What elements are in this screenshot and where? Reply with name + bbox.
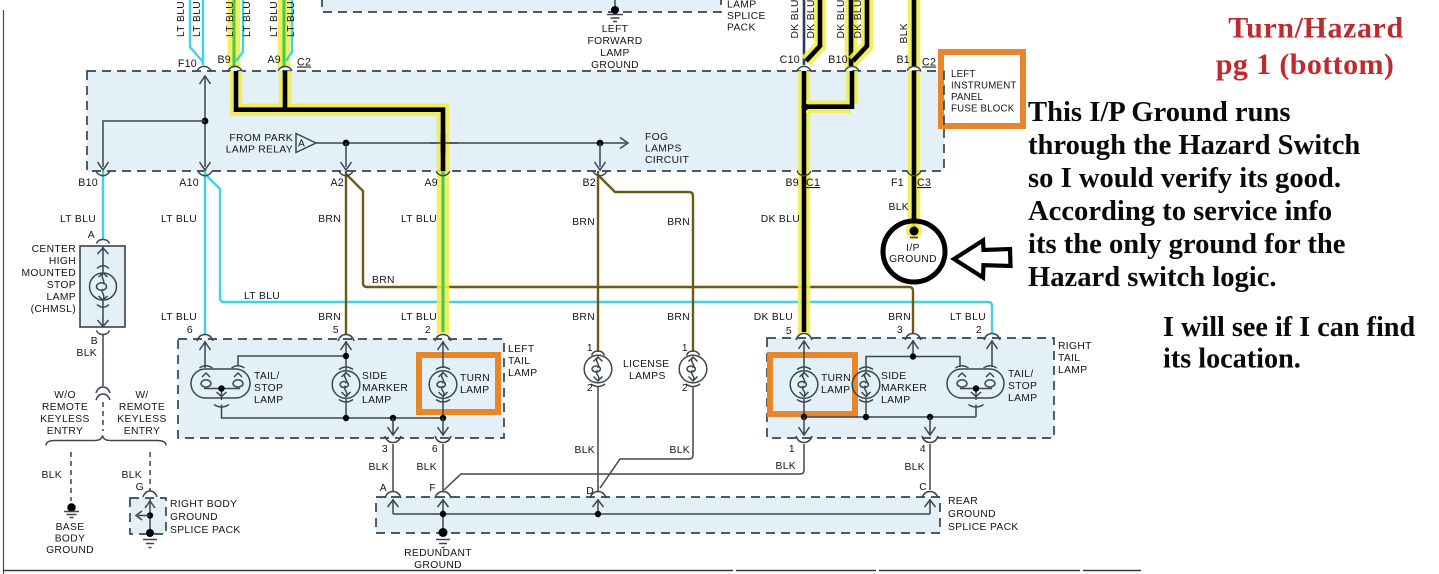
svg-text:LT BLU: LT BLU <box>401 214 437 225</box>
svg-text:BLK: BLK <box>574 445 595 456</box>
svg-text:PACK: PACK <box>727 23 756 34</box>
ground right body splice <box>143 529 157 548</box>
svg-text:TURN: TURN <box>460 373 490 384</box>
svg-text:This I/P Ground runs: This I/P Ground runs <box>1028 97 1291 128</box>
connector C10 <box>797 66 811 70</box>
svg-text:BLK: BLK <box>904 462 925 473</box>
wire LT BLU branch A10 to right tail pin 2 <box>205 174 992 334</box>
socket arc below CHMSL bulb <box>97 305 109 308</box>
svg-text:TAIL: TAIL <box>508 356 530 367</box>
connector A2 bottom exit <box>339 171 353 175</box>
svg-text:2: 2 <box>682 383 688 394</box>
svg-text:CENTER: CENTER <box>32 244 76 255</box>
svg-text:F10: F10 <box>178 58 197 70</box>
label I/P GROUND <box>889 243 937 265</box>
wire LT BLU pair into A9 <box>286 0 292 61</box>
inline connector pair <box>96 387 110 400</box>
label RIGHT TAIL LAMP <box>1058 341 1092 376</box>
label LAMP SPLICE PACK <box>727 0 766 34</box>
svg-text:5: 5 <box>333 325 339 336</box>
svg-text:1: 1 <box>682 343 688 354</box>
wire BLK left tail pin 6 to splice F <box>442 444 444 492</box>
label TURN LAMP left <box>460 373 490 396</box>
svg-text:FORWARD: FORWARD <box>587 36 642 47</box>
svg-text:LAMP: LAMP <box>508 368 537 379</box>
svg-text:A: A <box>380 483 387 494</box>
entry arrow pin 2 <box>438 341 449 368</box>
svg-text:REAR: REAR <box>948 496 978 507</box>
svg-text:BRN: BRN <box>372 275 395 286</box>
svg-text:C10: C10 <box>780 54 800 66</box>
exit arrow pin 1 <box>799 417 810 435</box>
connector 2 arc <box>435 335 451 342</box>
node bus side marker right <box>863 414 869 420</box>
label CENTER HIGH MOUNTED STOP LAMP (CHMSL) <box>21 244 76 315</box>
svg-text:A9: A9 <box>424 177 438 189</box>
svg-text:BRN: BRN <box>318 312 341 323</box>
connector 6 arc <box>197 335 213 342</box>
node bus side marker <box>343 415 349 421</box>
svg-text:FROM PARK: FROM PARK <box>229 133 293 144</box>
turn lamp bulb right <box>790 367 818 402</box>
label SIDE MARKER LAMP right <box>881 371 927 406</box>
svg-text:DK BLU: DK BLU <box>754 312 793 323</box>
label REDUNDANT GROUND <box>404 548 472 571</box>
svg-text:3: 3 <box>382 444 388 455</box>
svg-text:2: 2 <box>976 325 982 336</box>
svg-text:LAMPS: LAMPS <box>629 371 666 382</box>
svg-text:RIGHT BODY: RIGHT BODY <box>170 499 237 510</box>
svg-text:through the Hazard Switch: through the Hazard Switch <box>1028 130 1360 161</box>
brace for keyless entry options <box>46 436 166 446</box>
connector B9 <box>228 66 242 70</box>
svg-text:1: 1 <box>789 444 795 455</box>
svg-text:A: A <box>298 139 305 150</box>
svg-text:B: B <box>91 336 98 347</box>
svg-text:BRN: BRN <box>667 312 690 323</box>
wire DK BLU B9/C1 exit to right tail pin 5 (highlighted) <box>802 171 807 332</box>
svg-text:REDUNDANT: REDUNDANT <box>404 548 472 559</box>
svg-text:DK BLU: DK BLU <box>806 0 817 39</box>
internal wire B10 joining C10 wire (highlighted) <box>806 71 852 107</box>
svg-text:2: 2 <box>587 383 593 394</box>
svg-text:SIDE: SIDE <box>881 371 906 382</box>
svg-text:BLK: BLK <box>899 23 910 44</box>
svg-text:A: A <box>88 230 95 241</box>
connector B1/C2 <box>907 66 921 70</box>
svg-text:TAIL/: TAIL/ <box>1008 369 1034 380</box>
arrowhead down at A10 <box>200 162 211 170</box>
ground I/P with highlight <box>906 223 922 239</box>
svg-text:STOP: STOP <box>1008 381 1037 392</box>
node junction B10/C10 wires <box>801 103 808 110</box>
exit arrow pin 3 <box>388 418 399 435</box>
label W/O REMOTE KEYLESS ENTRY <box>40 390 89 437</box>
svg-text:BLK: BLK <box>888 202 909 213</box>
wire right turn lamp to bus <box>803 399 805 418</box>
wire LT BLU A10 exit to left tail pin 6 <box>204 171 206 334</box>
splice internal wires and bus <box>388 499 936 532</box>
connector 3 arc <box>905 334 921 341</box>
annotation circle around IP ground <box>883 221 945 282</box>
tail/stop lamp dual bulb right <box>947 366 1004 407</box>
internal wire A9 core over crossing <box>441 133 446 153</box>
svg-text:F: F <box>429 483 436 494</box>
node junction on F10-A10 wire <box>202 118 209 125</box>
svg-text:LT BLU: LT BLU <box>192 1 203 37</box>
svg-text:BODY: BODY <box>55 534 86 545</box>
highlight marker on C10 internal wire <box>798 71 811 171</box>
highlight marker on BLK into B1 <box>908 0 921 68</box>
connector G arc <box>143 491 157 497</box>
entry arrow pin 2 <box>987 340 998 367</box>
wire BRN branch B2 to right license lamp pin 1 <box>598 175 693 352</box>
svg-text:B9: B9 <box>785 177 799 189</box>
internal wire to B2 exit <box>599 143 601 167</box>
svg-text:D: D <box>586 486 594 497</box>
svg-text:I/P: I/P <box>906 243 920 254</box>
internal wire F10 to A10 <box>204 77 206 167</box>
entry arrow pin 3 <box>908 340 919 357</box>
arrowhead down at A2 <box>341 162 352 170</box>
node bus pin 6 <box>440 415 446 421</box>
license lamp bulb right <box>679 355 707 386</box>
svg-text:LAMP RELAY: LAMP RELAY <box>226 145 293 156</box>
arrowhead down at B10 <box>98 162 109 170</box>
svg-text:B10: B10 <box>78 177 98 189</box>
connector 3 bottom arc <box>385 436 401 443</box>
connector F1/C3 bottom exit <box>907 171 921 175</box>
svg-text:A2: A2 <box>330 177 344 189</box>
connector D arc <box>590 492 606 499</box>
dashed wire to base body ground <box>71 452 150 501</box>
internal wire B1 to F1/C3 exit (highlighted) <box>912 71 917 171</box>
svg-text:STOP: STOP <box>47 280 76 291</box>
ground base body <box>64 503 79 517</box>
label BASE BODY GROUND <box>46 522 94 556</box>
svg-text:C1: C1 <box>806 177 820 189</box>
svg-text:GROUND: GROUND <box>414 560 462 571</box>
svg-text:LAMPS: LAMPS <box>645 144 682 155</box>
svg-text:KEYLESS: KEYLESS <box>117 414 166 425</box>
highlight marker on B10 internal wire <box>806 71 852 107</box>
tail/stop lamp dual bulb <box>191 366 250 407</box>
svg-text:LAMP: LAMP <box>727 0 756 11</box>
internal wire junction to B10 exit <box>103 121 205 167</box>
svg-text:SPLICE PACK: SPLICE PACK <box>948 522 1019 533</box>
wire LT BLU pair into F10 <box>190 0 203 62</box>
connector 1 bottom arc <box>796 436 812 443</box>
rear ground splice pack box <box>376 497 940 533</box>
svg-text:A9: A9 <box>267 54 281 66</box>
label W/ REMOTE KEYLESS ENTRY <box>117 390 166 437</box>
right body splice internals <box>136 499 155 531</box>
svg-text:RIGHT: RIGHT <box>1058 341 1092 352</box>
svg-text:Hazard switch logic.: Hazard switch logic. <box>1028 262 1277 293</box>
svg-text:LT BLU: LT BLU <box>176 1 187 37</box>
label SIDE MARKER LAMP left <box>362 371 408 406</box>
connector B9/C1 bottom exit <box>797 171 811 175</box>
highlight marker A9 to left turn lamp <box>437 171 450 334</box>
label RIGHT BODY GROUND SPLICE PACK <box>170 499 241 536</box>
svg-text:LT BLU: LT BLU <box>269 1 280 37</box>
svg-text:LICENSE: LICENSE <box>623 359 670 370</box>
connector B arc <box>97 331 110 335</box>
connector A arc <box>97 240 110 244</box>
right tail ground bus <box>804 405 976 418</box>
page bottom border lines <box>3 570 1141 572</box>
svg-text:FUSE BLOCK: FUSE BLOCK <box>951 104 1015 115</box>
svg-text:C2: C2 <box>297 57 311 69</box>
svg-text:BRN: BRN <box>572 312 595 323</box>
svg-text:C3: C3 <box>917 177 931 189</box>
svg-text:W/: W/ <box>135 390 148 401</box>
arrowhead right to fog lamps <box>620 138 628 149</box>
svg-text:LT BLU: LT BLU <box>401 312 437 323</box>
svg-text:BRN: BRN <box>572 217 595 228</box>
svg-text:MARKER: MARKER <box>881 383 927 394</box>
svg-text:SPLICE: SPLICE <box>727 11 766 22</box>
svg-text:GROUND: GROUND <box>170 512 218 523</box>
svg-text:BLK: BLK <box>76 348 97 359</box>
label TAIL/STOP LAMP right <box>1008 369 1037 404</box>
svg-text:BLK: BLK <box>416 462 437 473</box>
connector B2 bottom exit <box>593 171 607 175</box>
orange box right turn lamp <box>770 355 855 414</box>
ground left forward lamp <box>607 0 623 22</box>
svg-text:(CHMSL): (CHMSL) <box>31 304 76 315</box>
highlight marker on DK BLU pair into B10 <box>853 0 867 61</box>
svg-text:GROUND: GROUND <box>46 545 94 556</box>
wire BRN B2 exit to left license lamp pin 1 <box>597 171 599 352</box>
svg-text:BASE: BASE <box>56 522 85 533</box>
CHMSL internal wire top <box>102 246 104 273</box>
connector 6 bottom arc <box>435 436 451 443</box>
wire LT BLU into B9 (highlighted) <box>233 0 236 66</box>
svg-text:LEFT: LEFT <box>951 69 975 80</box>
connector 5 arc <box>338 335 354 342</box>
svg-text:INSTRUMENT: INSTRUMENT <box>951 81 1017 92</box>
svg-text:DK BLU: DK BLU <box>790 0 801 39</box>
connector B10 <box>845 66 859 70</box>
svg-text:STOP: STOP <box>254 383 283 394</box>
connector 2 arc <box>984 334 1000 341</box>
highlight marker on LT BLU into B9 <box>228 0 241 68</box>
internal wire relay to fog lamps circuit <box>316 142 626 144</box>
svg-text:BRN: BRN <box>667 217 690 228</box>
wire right side marker to bus <box>865 399 867 418</box>
svg-text:its location.: its location. <box>1163 344 1301 375</box>
svg-text:BRN: BRN <box>318 214 341 225</box>
wire LT BLU into A9/C2 (highlighted) <box>283 0 286 66</box>
svg-text:GROUND: GROUND <box>948 509 996 520</box>
svg-text:LT BLU: LT BLU <box>244 291 280 302</box>
page left border line <box>3 10 5 574</box>
wire LT BLU into F10 <box>202 0 204 65</box>
arrowhead up at F10 <box>200 76 211 84</box>
node tail/stop bottom <box>218 385 224 391</box>
svg-text:LT BLU: LT BLU <box>225 1 236 37</box>
svg-text:BRN: BRN <box>888 312 911 323</box>
svg-text:MARKER: MARKER <box>362 383 408 394</box>
svg-text:LT BLU: LT BLU <box>60 214 96 225</box>
label LEFT FORWARD LAMP GROUND <box>587 24 642 71</box>
svg-text:C: C <box>919 482 927 493</box>
connector A arc <box>385 492 401 499</box>
node bus pin 3 <box>390 415 396 421</box>
svg-text:LAMP: LAMP <box>460 385 489 396</box>
svg-text:FOG: FOG <box>645 132 668 143</box>
turn lamp bulb left <box>429 367 457 402</box>
svg-text:BLK: BLK <box>41 470 62 481</box>
svg-text:LAMP: LAMP <box>881 395 910 406</box>
svg-text:5: 5 <box>786 326 792 337</box>
wire BLK right tail pin 4 to splice C <box>929 444 931 490</box>
svg-text:TURN: TURN <box>821 373 851 384</box>
svg-text:LAMP: LAMP <box>600 48 629 59</box>
svg-text:B10: B10 <box>828 54 848 66</box>
svg-text:LAMP: LAMP <box>821 385 850 396</box>
dashed wire to keyless entry brace <box>102 402 104 431</box>
svg-text:GROUND: GROUND <box>889 254 937 265</box>
svg-text:3: 3 <box>897 325 903 336</box>
internal wire to A2 exit <box>345 143 347 167</box>
svg-text:SPLICE PACK: SPLICE PACK <box>170 525 241 536</box>
label LICENSE LAMPS <box>623 359 670 382</box>
wire BRN branch A2 to right tail pin 3 <box>346 174 913 334</box>
node bus pin 4 <box>927 414 933 420</box>
wire BLK F1/C3 to IP ground <box>912 171 917 228</box>
node splice D <box>595 511 601 517</box>
svg-text:A10: A10 <box>179 177 199 189</box>
wire DK BLU pair into B10 (highlighted) <box>853 0 867 61</box>
svg-text:According to service info: According to service info <box>1028 196 1332 227</box>
svg-text:TAIL/: TAIL/ <box>254 371 280 382</box>
connector F arc <box>435 492 451 499</box>
internal wire C10 to B9/C1 exit (highlighted) <box>802 71 807 171</box>
svg-text:pg 1 (bottom): pg 1 (bottom) <box>1216 48 1395 81</box>
label REAR GROUND SPLICE PACK <box>948 496 1019 533</box>
arrowhead down at B2 <box>595 162 606 170</box>
label TURN LAMP right <box>821 373 851 396</box>
svg-text:1: 1 <box>587 343 593 354</box>
wire relay line crossing highlighted A9 wire <box>430 142 458 144</box>
svg-text:LEFT: LEFT <box>508 344 535 355</box>
entry arrow pin 5 <box>341 341 352 370</box>
wire DK BLU into B10 (highlighted) <box>849 0 854 66</box>
highlight marker on B9-A9 internal wire <box>236 71 443 171</box>
highlight marker B9/C1 to right turn lamp <box>798 171 811 334</box>
svg-text:BLK: BLK <box>775 461 796 472</box>
svg-text:TAIL: TAIL <box>1058 353 1080 364</box>
orange box left instrument panel fuse block <box>941 52 1023 128</box>
node BRN to side marker <box>343 353 349 359</box>
svg-text:ENTRY: ENTRY <box>47 426 83 437</box>
annotation block arrow pointing left <box>954 241 1011 278</box>
svg-text:BLK: BLK <box>368 462 389 473</box>
svg-text:PANEL: PANEL <box>951 92 983 103</box>
wire BLK left license lamp pin 2 to splice D <box>597 386 599 492</box>
svg-text:B9: B9 <box>217 54 231 66</box>
label LEFT TAIL LAMP <box>508 344 537 379</box>
arrowhead down inside CHMSL <box>98 320 109 327</box>
svg-text:DK BLU: DK BLU <box>836 0 847 39</box>
svg-text:Turn/Hazard: Turn/Hazard <box>1228 12 1404 45</box>
connector A9 bottom exit <box>436 171 450 175</box>
svg-text:I will see if I can find: I will see if I can find <box>1163 312 1415 343</box>
highlight marker F1/C3 to IP ground <box>908 171 921 234</box>
svg-text:SIDE: SIDE <box>362 371 387 382</box>
svg-text:F1: F1 <box>891 177 904 189</box>
connector 5 arc <box>796 334 812 341</box>
svg-text:MOUNTED: MOUNTED <box>21 268 76 279</box>
internal wire A9 top entry (highlighted thick) <box>283 71 288 110</box>
svg-text:BLK: BLK <box>669 445 690 456</box>
wire side marker to bus <box>345 399 347 419</box>
svg-text:DK BLU: DK BLU <box>761 214 800 225</box>
svg-text:6: 6 <box>432 444 438 455</box>
CHMSL box <box>80 246 125 327</box>
svg-text:LT BLU: LT BLU <box>161 312 197 323</box>
svg-text:LAMP: LAMP <box>47 292 76 303</box>
CHMSL internal wire bottom <box>102 300 104 327</box>
right body ground splice pack box <box>130 498 166 534</box>
connector 4 bottom arc <box>922 436 938 443</box>
wire BLK left tail pin 3 to splice A <box>392 444 394 492</box>
exit arrow pin 4 <box>925 417 936 435</box>
svg-text:CIRCUIT: CIRCUIT <box>645 155 690 166</box>
orange box left turn lamp <box>419 355 498 412</box>
svg-text:its the only ground for the: its the only ground for the <box>1028 229 1345 260</box>
CHMSL bulb <box>90 273 117 300</box>
label TAIL/STOP LAMP left <box>254 371 283 406</box>
node bus right turn <box>801 414 807 420</box>
svg-text:W/O: W/O <box>54 390 76 401</box>
wire BLK right tail pin 1 to splice F <box>444 444 804 490</box>
svg-text:2: 2 <box>425 325 431 336</box>
connector F10 <box>197 66 211 70</box>
svg-text:KEYLESS: KEYLESS <box>40 414 89 425</box>
svg-text:so I would verify its good.: so I would verify its good. <box>1028 163 1341 194</box>
arrowhead up inside CHMSL <box>98 248 109 254</box>
svg-text:REMOTE: REMOTE <box>119 402 165 413</box>
triangle symbol A from park lamp relay <box>296 134 316 153</box>
svg-text:LEFT: LEFT <box>602 24 629 35</box>
svg-text:LT BLU: LT BLU <box>242 1 253 37</box>
side marker lamp bulb left <box>332 367 360 402</box>
svg-text:BLK: BLK <box>121 470 142 481</box>
highlight marker on B1 internal wire <box>908 71 921 171</box>
svg-text:LAMP: LAMP <box>254 395 283 406</box>
wire BLK CHMSL to inline connector <box>102 335 104 386</box>
wire turn lamp to bus <box>442 399 444 419</box>
socket arc above CHMSL bulb <box>97 266 109 269</box>
svg-text:LAMP: LAMP <box>1008 393 1037 404</box>
note about finding location <box>1163 312 1415 375</box>
node junction to A2 <box>343 140 350 147</box>
svg-text:6: 6 <box>187 325 193 336</box>
wire DK BLU into C10 <box>803 0 806 65</box>
svg-text:LT BLU: LT BLU <box>950 312 986 323</box>
left tail lamp box <box>178 339 504 438</box>
left tail ground bus <box>222 405 444 419</box>
wire LT BLU pair into B9 <box>236 0 243 61</box>
highlight marker on LT BLU into A9 <box>278 0 291 68</box>
svg-text:LT BLU: LT BLU <box>161 214 197 225</box>
wire BRN A2 exit to left tail pin 5 <box>345 171 347 334</box>
node splice F <box>440 511 446 517</box>
wire LT BLU A9 exit to left tail pin 2 (highlighted) <box>442 171 445 332</box>
